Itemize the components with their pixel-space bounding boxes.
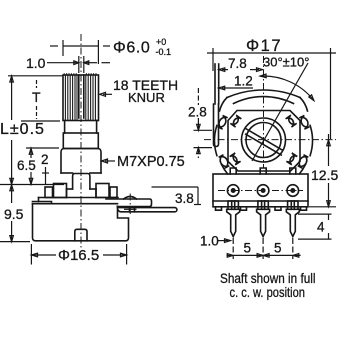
svg-text:12.5: 12.5 bbox=[311, 167, 338, 183]
svg-text:9.5: 9.5 bbox=[4, 206, 24, 222]
svg-text:30°±10°: 30°±10° bbox=[263, 55, 309, 70]
svg-text:M7XP0.75: M7XP0.75 bbox=[117, 154, 185, 170]
svg-text:KNUR: KNUR bbox=[128, 90, 165, 105]
svg-text:Φ16.5: Φ16.5 bbox=[58, 247, 99, 264]
svg-text:Φ6.0: Φ6.0 bbox=[113, 40, 150, 57]
svg-text:L±0.5: L±0.5 bbox=[0, 121, 45, 138]
svg-text:T: T bbox=[32, 89, 41, 105]
svg-text:1.2: 1.2 bbox=[234, 74, 253, 89]
svg-text:1.0: 1.0 bbox=[200, 234, 219, 249]
svg-text:2: 2 bbox=[41, 152, 49, 167]
svg-text:3.8: 3.8 bbox=[175, 191, 194, 206]
svg-text:-0.1: -0.1 bbox=[156, 47, 172, 57]
svg-text:2.8: 2.8 bbox=[188, 105, 207, 120]
svg-text:c. c. w. position: c. c. w. position bbox=[230, 284, 306, 300]
svg-text:1.0: 1.0 bbox=[26, 55, 46, 71]
svg-text:4: 4 bbox=[317, 220, 325, 235]
svg-text:5: 5 bbox=[244, 241, 252, 256]
svg-text:5: 5 bbox=[274, 241, 282, 256]
svg-text:+0: +0 bbox=[156, 37, 166, 47]
svg-text:Φ17: Φ17 bbox=[246, 37, 282, 55]
svg-text:6.5: 6.5 bbox=[17, 158, 36, 173]
svg-text:7.8: 7.8 bbox=[228, 56, 247, 71]
